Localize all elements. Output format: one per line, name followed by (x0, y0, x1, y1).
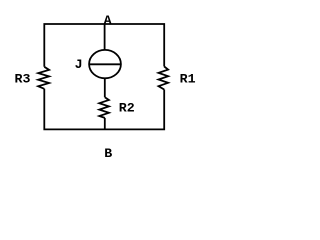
svg-text:R2: R2 (119, 101, 135, 116)
svg-text:J: J (75, 57, 83, 72)
svg-text:A: A (104, 13, 112, 28)
svg-text:R1: R1 (180, 71, 196, 86)
svg-text:B: B (104, 146, 112, 161)
svg-text:R3: R3 (15, 71, 31, 86)
